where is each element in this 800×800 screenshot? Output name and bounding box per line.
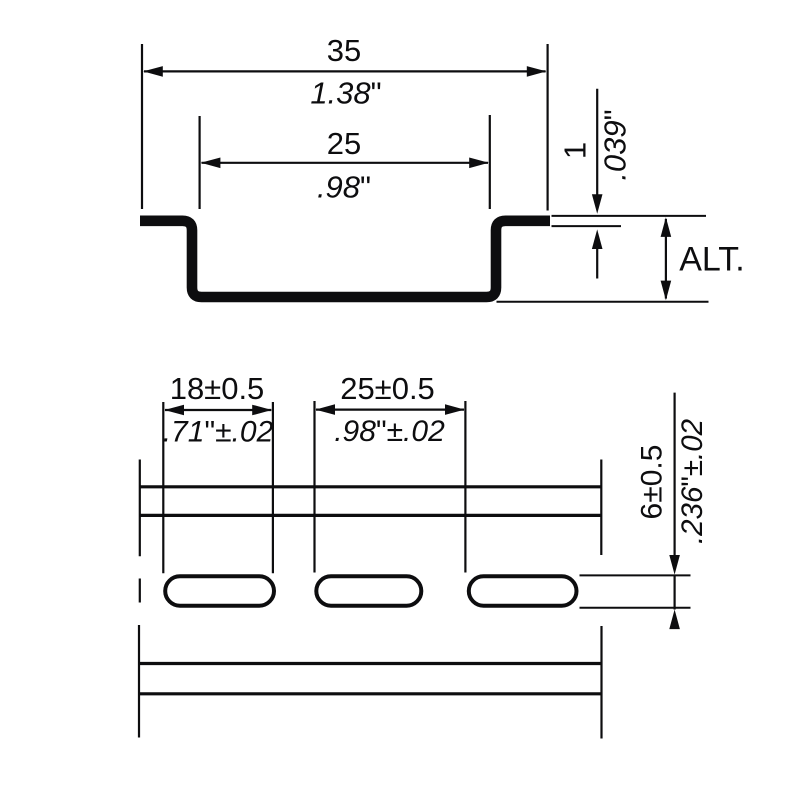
centerline dash at left slot row <box>139 579 141 603</box>
svg-text:25: 25 <box>327 126 361 161</box>
arrowhead left of 18 dim <box>164 405 184 416</box>
svg-text:.71"±.02: .71"±.02 <box>163 416 274 449</box>
dimension 6 stem between extension lines <box>673 575 675 610</box>
svg-text:.039": .039" <box>598 109 633 180</box>
arrowhead right of 25 dim <box>469 158 489 169</box>
svg-text:1.38": 1.38" <box>310 76 381 111</box>
lower band right end line <box>600 626 602 739</box>
arrowhead left of 25 dim <box>201 158 221 169</box>
svg-text:ALT.: ALT. <box>679 241 745 279</box>
extension line left of 35 dim <box>141 44 143 209</box>
dimension 6 leader upper stem <box>673 393 675 557</box>
upper band top edge <box>140 485 602 488</box>
upper band bottom edge <box>140 514 602 517</box>
ALT arrowhead up <box>661 217 672 237</box>
extension line right of 25 dim <box>489 115 491 209</box>
extension line right of 35 dim <box>546 44 548 211</box>
lower band top edge <box>140 662 601 665</box>
thin line: flange bottom surface extended right <box>552 225 622 227</box>
dimension 1 lower arrow pointing up <box>592 229 603 249</box>
ALT arrowhead down <box>661 281 672 301</box>
dimension 1 (thickness) upper leader <box>596 89 598 196</box>
slot 3 <box>469 576 577 605</box>
svg-text:.98": .98" <box>317 170 371 205</box>
dimension line 18 <box>165 409 271 411</box>
rail hat profile (cross-section) <box>140 221 550 297</box>
lower band left end line <box>138 625 140 738</box>
slot height extension line top <box>580 574 691 576</box>
slot height extension line bottom <box>580 607 691 609</box>
ALT double arrow stem <box>665 219 667 299</box>
dimension 1 lower leader stem <box>596 248 598 279</box>
arrowhead right of 18 dim <box>252 405 272 416</box>
arrowhead right of 35 dim <box>527 66 547 77</box>
upper band left end line <box>139 460 141 557</box>
extension line right of 25 pitch dim <box>464 401 466 573</box>
svg-text:1: 1 <box>558 142 593 159</box>
arrowhead up of 6 dim <box>669 610 680 630</box>
slot 2 <box>316 576 421 605</box>
svg-text:18±0.5: 18±0.5 <box>170 371 265 406</box>
slot 1 <box>165 576 274 605</box>
arrowhead down of thickness dim <box>592 194 603 214</box>
dimension line 35 <box>144 70 546 72</box>
extension line left of 25 pitch dim <box>313 401 315 573</box>
extension line right of 18 dim <box>272 402 274 573</box>
svg-text:.98"±.02: .98"±.02 <box>334 415 445 448</box>
dimension line 25 pitch <box>316 409 464 411</box>
svg-text:25±0.5: 25±0.5 <box>340 371 435 406</box>
arrowhead right of 25 pitch dim <box>445 404 465 415</box>
extension line left of 18 dim <box>162 402 164 573</box>
upper band right end line <box>600 460 602 556</box>
arrowhead left of 35 dim <box>143 66 163 77</box>
lower band bottom edge <box>140 692 601 695</box>
dimension line 25 <box>202 162 489 164</box>
svg-text:35: 35 <box>327 33 361 68</box>
arrowhead left of 25 pitch dim <box>315 404 335 415</box>
extension line left of 25 dim <box>199 116 201 209</box>
thin line: rail bottom surface extended right <box>497 301 709 303</box>
svg-text:6±0.5: 6±0.5 <box>636 445 669 520</box>
svg-text:.236"±.02: .236"±.02 <box>676 419 709 544</box>
thin line: rail top surface extended right <box>552 215 707 217</box>
arrowhead down of 6 dim <box>669 555 680 575</box>
